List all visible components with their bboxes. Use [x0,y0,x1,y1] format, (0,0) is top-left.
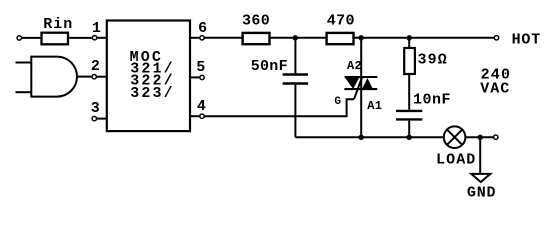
svg-text:A1: A1 [367,99,382,113]
svg-text:323/: 323/ [130,85,175,102]
resistor 39ohm [408,38,410,47]
svg-text:A2: A2 [347,59,362,73]
pin 4 [191,115,200,117]
svg-text:2: 2 [91,58,100,75]
triac T1 [334,38,382,138]
svg-text:5: 5 [196,59,205,76]
wire input to Rin [21,37,40,39]
svg-text:3: 3 [91,100,100,117]
pin 5 [191,76,200,78]
wire to ground [479,137,481,173]
node junction 50nF top [293,35,298,40]
terminal HOT [494,36,498,40]
node junction 39ohm top [407,35,412,40]
svg-text:4: 4 [197,98,206,115]
resistor 470 [327,33,354,44]
wire 470 to HOT [355,37,495,39]
svg-text:Rin: Rin [43,16,73,33]
terminal load right [494,135,498,139]
optocoupler U1 MOC321/322/323 body [107,21,190,132]
bottom rail wire [295,136,443,138]
AND gate [31,57,77,97]
svg-text:LOAD: LOAD [436,152,476,169]
wire pin 4 to triac gate [204,99,354,116]
pin 6 [191,37,200,39]
svg-text:6: 6 [198,20,207,37]
wire lamp to right terminal [465,136,493,138]
svg-text:HOT: HOT [512,31,541,48]
svg-text:1: 1 [92,20,101,37]
node junction 10nF bottom [407,135,412,140]
AND gate input wire bottom [16,91,32,93]
svg-text:39Ω: 39Ω [418,52,448,69]
AND gate input wire top [16,62,32,64]
wire Rin to pin 1 [69,37,92,39]
wire 360 to 470 [271,37,326,39]
wire pin 6 to resistor 360 [204,37,241,39]
node junction triac bottom [359,135,364,140]
node junction ground branch [478,135,483,140]
svg-text:470: 470 [327,13,355,30]
lamp LOAD [444,126,466,148]
resistor Rin [42,33,69,45]
input terminal [17,36,21,40]
pin 2 [96,76,106,78]
svg-text:GND: GND [467,184,496,201]
svg-text:50nF: 50nF [251,58,288,75]
wire gate output to pin 2 [77,76,91,78]
capacitor 10nF [408,74,410,110]
node junction triac top [358,35,363,40]
pin 3 [97,118,107,120]
pin 1 [97,37,106,39]
capacitor 50nF [294,38,296,74]
resistor 360 [243,33,270,44]
svg-text:VAC: VAC [480,81,510,98]
svg-text:360: 360 [242,13,270,30]
ground GND [471,174,490,182]
svg-text:G: G [334,96,341,108]
svg-text:10nF: 10nF [413,91,451,108]
